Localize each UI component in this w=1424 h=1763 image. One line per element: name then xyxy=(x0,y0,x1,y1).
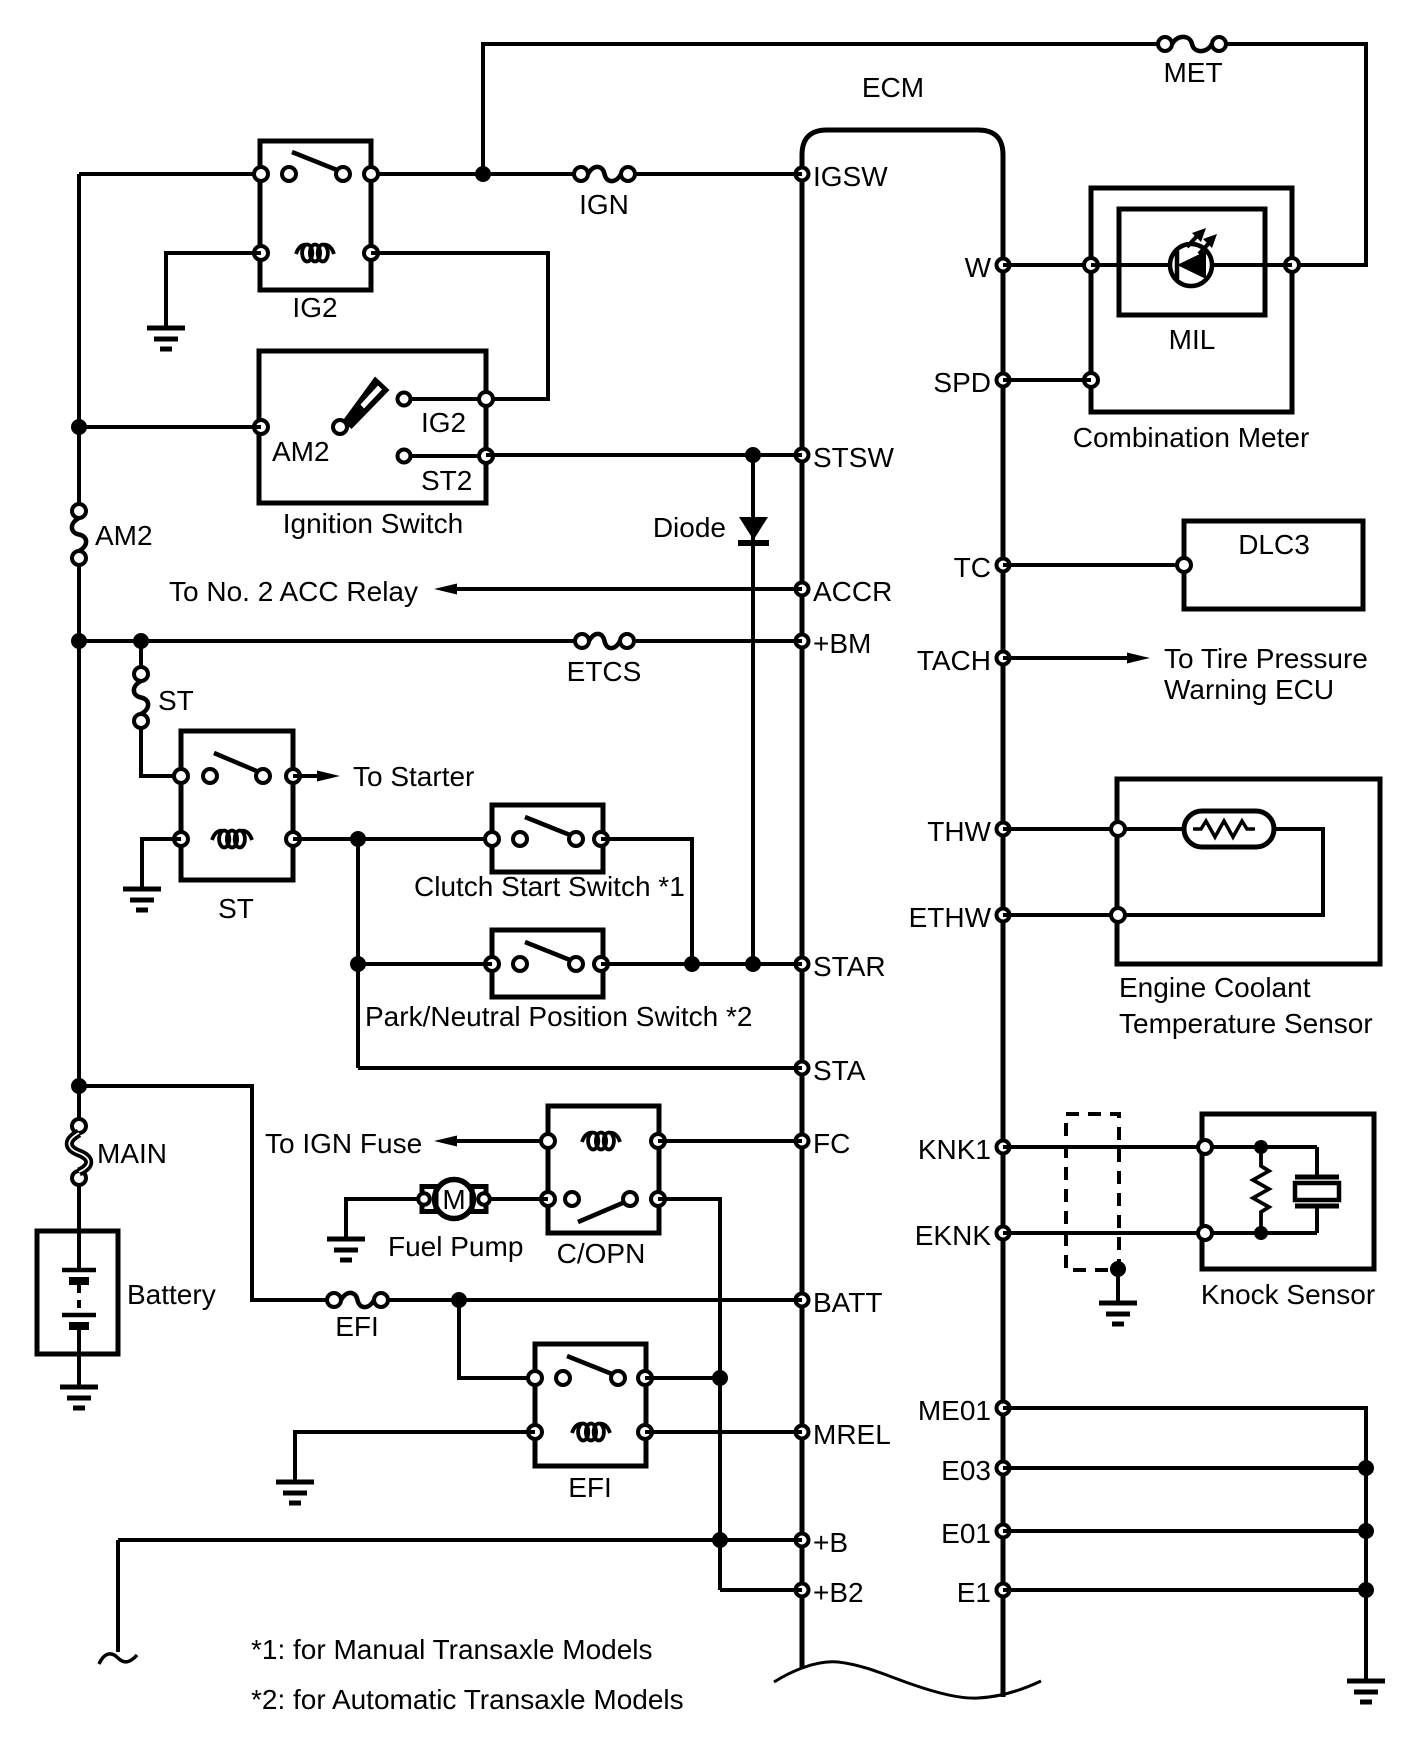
wire MET fuse to combination meter xyxy=(1224,44,1366,265)
tire pressure ECU arrow xyxy=(1003,643,1368,705)
ground shield ground xyxy=(1099,1303,1137,1324)
svg-text:MAIN: MAIN xyxy=(97,1138,167,1169)
fuse IGN xyxy=(574,167,635,220)
wire C/OPN output to +B rail xyxy=(658,1199,802,1590)
node +B join xyxy=(712,1532,728,1548)
svg-text:E1: E1 xyxy=(957,1577,991,1608)
ground EFI relay ground xyxy=(276,1482,314,1503)
ECM pin E1 xyxy=(957,1577,1010,1608)
combination meter box xyxy=(1073,188,1310,453)
wire +B line xyxy=(118,1538,802,1542)
svg-text:THW: THW xyxy=(927,816,991,847)
ECM pin MREL xyxy=(796,1419,891,1450)
ECM pin ME01 xyxy=(918,1395,1010,1426)
wire KNK1 line xyxy=(1003,1145,1205,1149)
node +BM branch xyxy=(71,633,87,649)
wire IGN fuse to IGSW pin xyxy=(635,172,802,176)
ECM pin TACH xyxy=(917,645,1010,676)
battery BAT1 xyxy=(37,1231,216,1354)
relay IG2 xyxy=(254,141,378,323)
svg-text:+B2: +B2 xyxy=(813,1577,864,1608)
svg-text:ETCS: ETCS xyxy=(567,656,642,687)
ECM pin +BM xyxy=(796,628,872,659)
svg-text:Combination Meter: Combination Meter xyxy=(1073,422,1310,453)
svg-text:Engine Coolant: Engine Coolant xyxy=(1119,972,1311,1003)
svg-text:Temperature Sensor: Temperature Sensor xyxy=(1119,1008,1373,1039)
wire E01 line xyxy=(1003,1529,1366,1533)
ECM pin STSW xyxy=(796,442,895,473)
svg-text:BATT: BATT xyxy=(813,1287,882,1318)
wire shield ground wire xyxy=(1116,1269,1120,1302)
svg-text:W: W xyxy=(965,252,992,283)
fusible link MAIN xyxy=(69,1119,167,1185)
engine coolant temperature sensor xyxy=(1111,779,1380,1039)
svg-text:IGN: IGN xyxy=(579,189,629,220)
wire clutch switch output xyxy=(601,839,692,964)
node EFI relay output join xyxy=(712,1370,728,1386)
MIL indicator box xyxy=(1119,209,1265,355)
wire battery feed to EFI fuse xyxy=(79,1086,327,1300)
svg-text:+BM: +BM xyxy=(813,628,871,659)
svg-text:SPD: SPD xyxy=(933,367,991,398)
ECM pin TC xyxy=(954,552,1010,583)
wire STAR line xyxy=(601,962,802,966)
svg-text:To No. 2 ACC Relay: To No. 2 ACC Relay xyxy=(169,576,418,607)
wire ST coil to ground xyxy=(142,839,181,888)
wire TC line xyxy=(1003,563,1184,567)
wire fuel pump ground wire xyxy=(346,1199,420,1238)
ECM pin ACCR xyxy=(796,576,893,607)
wire EFI fuse to BATT pin xyxy=(388,1298,802,1302)
knock sensor xyxy=(1198,1114,1375,1310)
wire EFI coil ground wire xyxy=(295,1432,535,1481)
node E01 join xyxy=(1358,1523,1374,1539)
wire +B continuation down xyxy=(116,1540,120,1652)
svg-text:TC: TC xyxy=(954,552,991,583)
node clutch join xyxy=(684,956,700,972)
svg-text:MIL: MIL xyxy=(1169,324,1216,355)
svg-text:ACCR: ACCR xyxy=(813,576,892,607)
ECM pin +B2 xyxy=(796,1577,864,1608)
piezo element X1 xyxy=(1295,1147,1339,1233)
ECM pin KNK1 xyxy=(918,1134,1010,1165)
ECM pin THW xyxy=(927,816,1009,847)
ECM pin SPD xyxy=(933,367,1009,398)
LED D2 (MIL lamp) xyxy=(1170,228,1217,286)
wire left rail middle xyxy=(77,565,81,1119)
node STA branch xyxy=(350,831,366,847)
svg-text:IG2: IG2 xyxy=(421,407,466,438)
svg-text:STSW: STSW xyxy=(813,442,894,473)
wire E03 line xyxy=(1003,1466,1366,1470)
wire ST2 to STSW xyxy=(486,453,802,457)
svg-text:Battery: Battery xyxy=(127,1279,216,1310)
svg-text:Diode: Diode xyxy=(653,512,726,543)
node knock resistor top xyxy=(1254,1140,1268,1154)
fuse AM2 xyxy=(72,504,153,565)
fuse EFI xyxy=(327,1293,388,1342)
svg-text:MREL: MREL xyxy=(813,1419,891,1450)
ground IG2 relay ground xyxy=(147,328,185,349)
node knock resistor bottom xyxy=(1254,1226,1268,1240)
node AM2 branch xyxy=(71,419,87,435)
ECM pin EKNK xyxy=(915,1220,1010,1251)
wire FC line xyxy=(658,1139,802,1143)
svg-text:EFI: EFI xyxy=(568,1472,612,1503)
svg-text:IG2: IG2 xyxy=(292,292,337,323)
svg-text:KNK1: KNK1 xyxy=(918,1134,991,1165)
svg-text:TACH: TACH xyxy=(917,645,991,676)
relay ST xyxy=(174,731,300,924)
svg-text:STAR: STAR xyxy=(813,951,886,982)
wire left rail upper xyxy=(77,174,81,504)
wire ST fuse feed xyxy=(139,641,143,667)
ECM box U1 xyxy=(802,130,1003,1697)
resistor R1 (knock sensor) xyxy=(1253,1147,1269,1233)
wire W line xyxy=(1003,263,1091,267)
svg-text:*1: for Manual Transaxle Model: *1: for Manual Transaxle Models xyxy=(251,1634,653,1665)
wire EFI relay output xyxy=(645,1376,720,1380)
node E03 join xyxy=(1358,1460,1374,1476)
svg-text:*2: for Automatic Transaxle Mo: *2: for Automatic Transaxle Models xyxy=(251,1684,684,1715)
wire ST coil to clutch switch xyxy=(293,837,492,841)
svg-text:E03: E03 xyxy=(941,1455,991,1486)
svg-text:To Starter: To Starter xyxy=(353,761,474,792)
clutch start switch SW2 xyxy=(414,805,685,902)
svg-text:Fuel Pump: Fuel Pump xyxy=(388,1231,523,1262)
wire MET feed from IGN node xyxy=(483,44,1163,174)
svg-text:AM2: AM2 xyxy=(95,520,153,551)
svg-text:STA: STA xyxy=(813,1055,866,1086)
svg-text:ST2: ST2 xyxy=(421,465,472,496)
svg-text:To IGN Fuse: To IGN Fuse xyxy=(265,1128,422,1159)
wire EFI relay feed xyxy=(459,1300,535,1378)
wire ETHW line xyxy=(1003,913,1118,917)
svg-text:FC: FC xyxy=(813,1128,850,1159)
ignition switch SW1 xyxy=(254,351,493,539)
motor M1 fuel pump xyxy=(388,1180,523,1263)
wire park-neutral input xyxy=(358,962,492,966)
wire fuel pump to C/OPN xyxy=(488,1197,548,1201)
wire IG2 coil to ground xyxy=(166,253,261,327)
ECM pin IGSW xyxy=(796,161,889,192)
To Starter arrow xyxy=(293,761,474,792)
svg-text:EFI: EFI xyxy=(335,1311,379,1342)
wire SPD line xyxy=(1003,378,1091,382)
wire +BM line left xyxy=(79,639,575,643)
svg-text:Ignition Switch: Ignition Switch xyxy=(283,508,464,539)
To IGN Fuse arrow xyxy=(265,1128,548,1159)
svg-text:AM2: AM2 xyxy=(272,436,330,467)
fuse ETCS xyxy=(567,634,642,687)
ECM pin STA xyxy=(796,1055,866,1086)
wire MIL wire left xyxy=(1091,263,1170,267)
node ST fuse branch xyxy=(133,633,149,649)
wire STA vertical xyxy=(356,839,360,1068)
wire EKNK line xyxy=(1003,1231,1205,1235)
DLC3 connector box xyxy=(1177,521,1363,609)
ECM pin FC xyxy=(796,1128,851,1159)
svg-text:IGSW: IGSW xyxy=(813,161,888,192)
ground fuel pump ground xyxy=(327,1239,365,1260)
wire +BM line right xyxy=(636,639,802,643)
relay EFI xyxy=(528,1344,652,1503)
svg-text:EKNK: EKNK xyxy=(915,1220,992,1251)
svg-text:ECM: ECM xyxy=(862,72,924,103)
ECM pin BATT xyxy=(796,1287,883,1318)
node EFI relay feed branch xyxy=(451,1292,467,1308)
wire IG2 relay to IGN fuse xyxy=(371,172,575,176)
wire left rail to battery xyxy=(77,1185,81,1231)
wire IG2 coil to ignition switch IG2 xyxy=(371,253,548,399)
ECM pin +B xyxy=(796,1527,849,1558)
wire MREL line xyxy=(645,1430,802,1434)
svg-text:DLC3: DLC3 xyxy=(1238,529,1310,560)
ground ST relay ground xyxy=(123,889,161,910)
ECM pin E01 xyxy=(941,1518,1009,1549)
relay C/OPN xyxy=(541,1106,665,1269)
fuse ST xyxy=(134,667,194,728)
svg-text:M: M xyxy=(442,1184,465,1215)
wire MIL wire right xyxy=(1212,263,1292,267)
node shield ground node xyxy=(1110,1261,1126,1277)
svg-text:E01: E01 xyxy=(941,1518,991,1549)
svg-text:To Tire Pressure: To Tire Pressure xyxy=(1164,643,1368,674)
svg-text:+B: +B xyxy=(813,1527,848,1558)
wire ST fuse to relay xyxy=(141,728,181,776)
svg-text:ST: ST xyxy=(218,893,254,924)
node E1 join xyxy=(1358,1582,1374,1598)
wire IGSW line left xyxy=(79,172,261,176)
ACC relay arrow xyxy=(169,576,802,607)
svg-text:Warning ECU: Warning ECU xyxy=(1164,674,1334,705)
svg-text:Park/Neutral Position Switch *: Park/Neutral Position Switch *2 xyxy=(365,1001,753,1032)
node diode top junction xyxy=(745,447,761,463)
node diode bottom junction xyxy=(745,956,761,972)
wire ME01 line xyxy=(1003,1408,1366,1680)
ECM pin E03 xyxy=(941,1455,1009,1486)
svg-text:ST: ST xyxy=(158,685,194,716)
svg-text:C/OPN: C/OPN xyxy=(557,1238,646,1269)
ECM pin W xyxy=(965,252,1010,283)
wire battery to ground xyxy=(77,1354,81,1386)
ECM pin ETHW xyxy=(909,902,1010,933)
wire STA line xyxy=(358,1066,802,1070)
park/neutral position switch SW3 xyxy=(365,930,753,1032)
shield (dashed) xyxy=(1066,1114,1119,1270)
node battery feed branch xyxy=(71,1078,87,1094)
wire AM2 line xyxy=(79,425,261,429)
ground ECM ground xyxy=(1347,1681,1385,1702)
wire break squiggle xyxy=(99,1654,137,1664)
diode D1 xyxy=(653,455,769,964)
svg-text:ETHW: ETHW xyxy=(909,902,992,933)
svg-text:Clutch Start Switch *1: Clutch Start Switch *1 xyxy=(414,871,685,902)
ground battery ground xyxy=(60,1387,98,1408)
svg-text:Knock Sensor: Knock Sensor xyxy=(1201,1279,1375,1310)
ECM pin STAR xyxy=(796,951,886,982)
svg-text:ME01: ME01 xyxy=(918,1395,991,1426)
node park-neutral branch xyxy=(350,956,366,972)
node IGN junction xyxy=(475,166,491,182)
ECM bottom break wave xyxy=(774,1662,1041,1698)
svg-text:MET: MET xyxy=(1163,57,1222,88)
fuse MET xyxy=(1158,37,1226,88)
wire THW line xyxy=(1003,827,1118,831)
wire E1 line xyxy=(1003,1588,1366,1592)
